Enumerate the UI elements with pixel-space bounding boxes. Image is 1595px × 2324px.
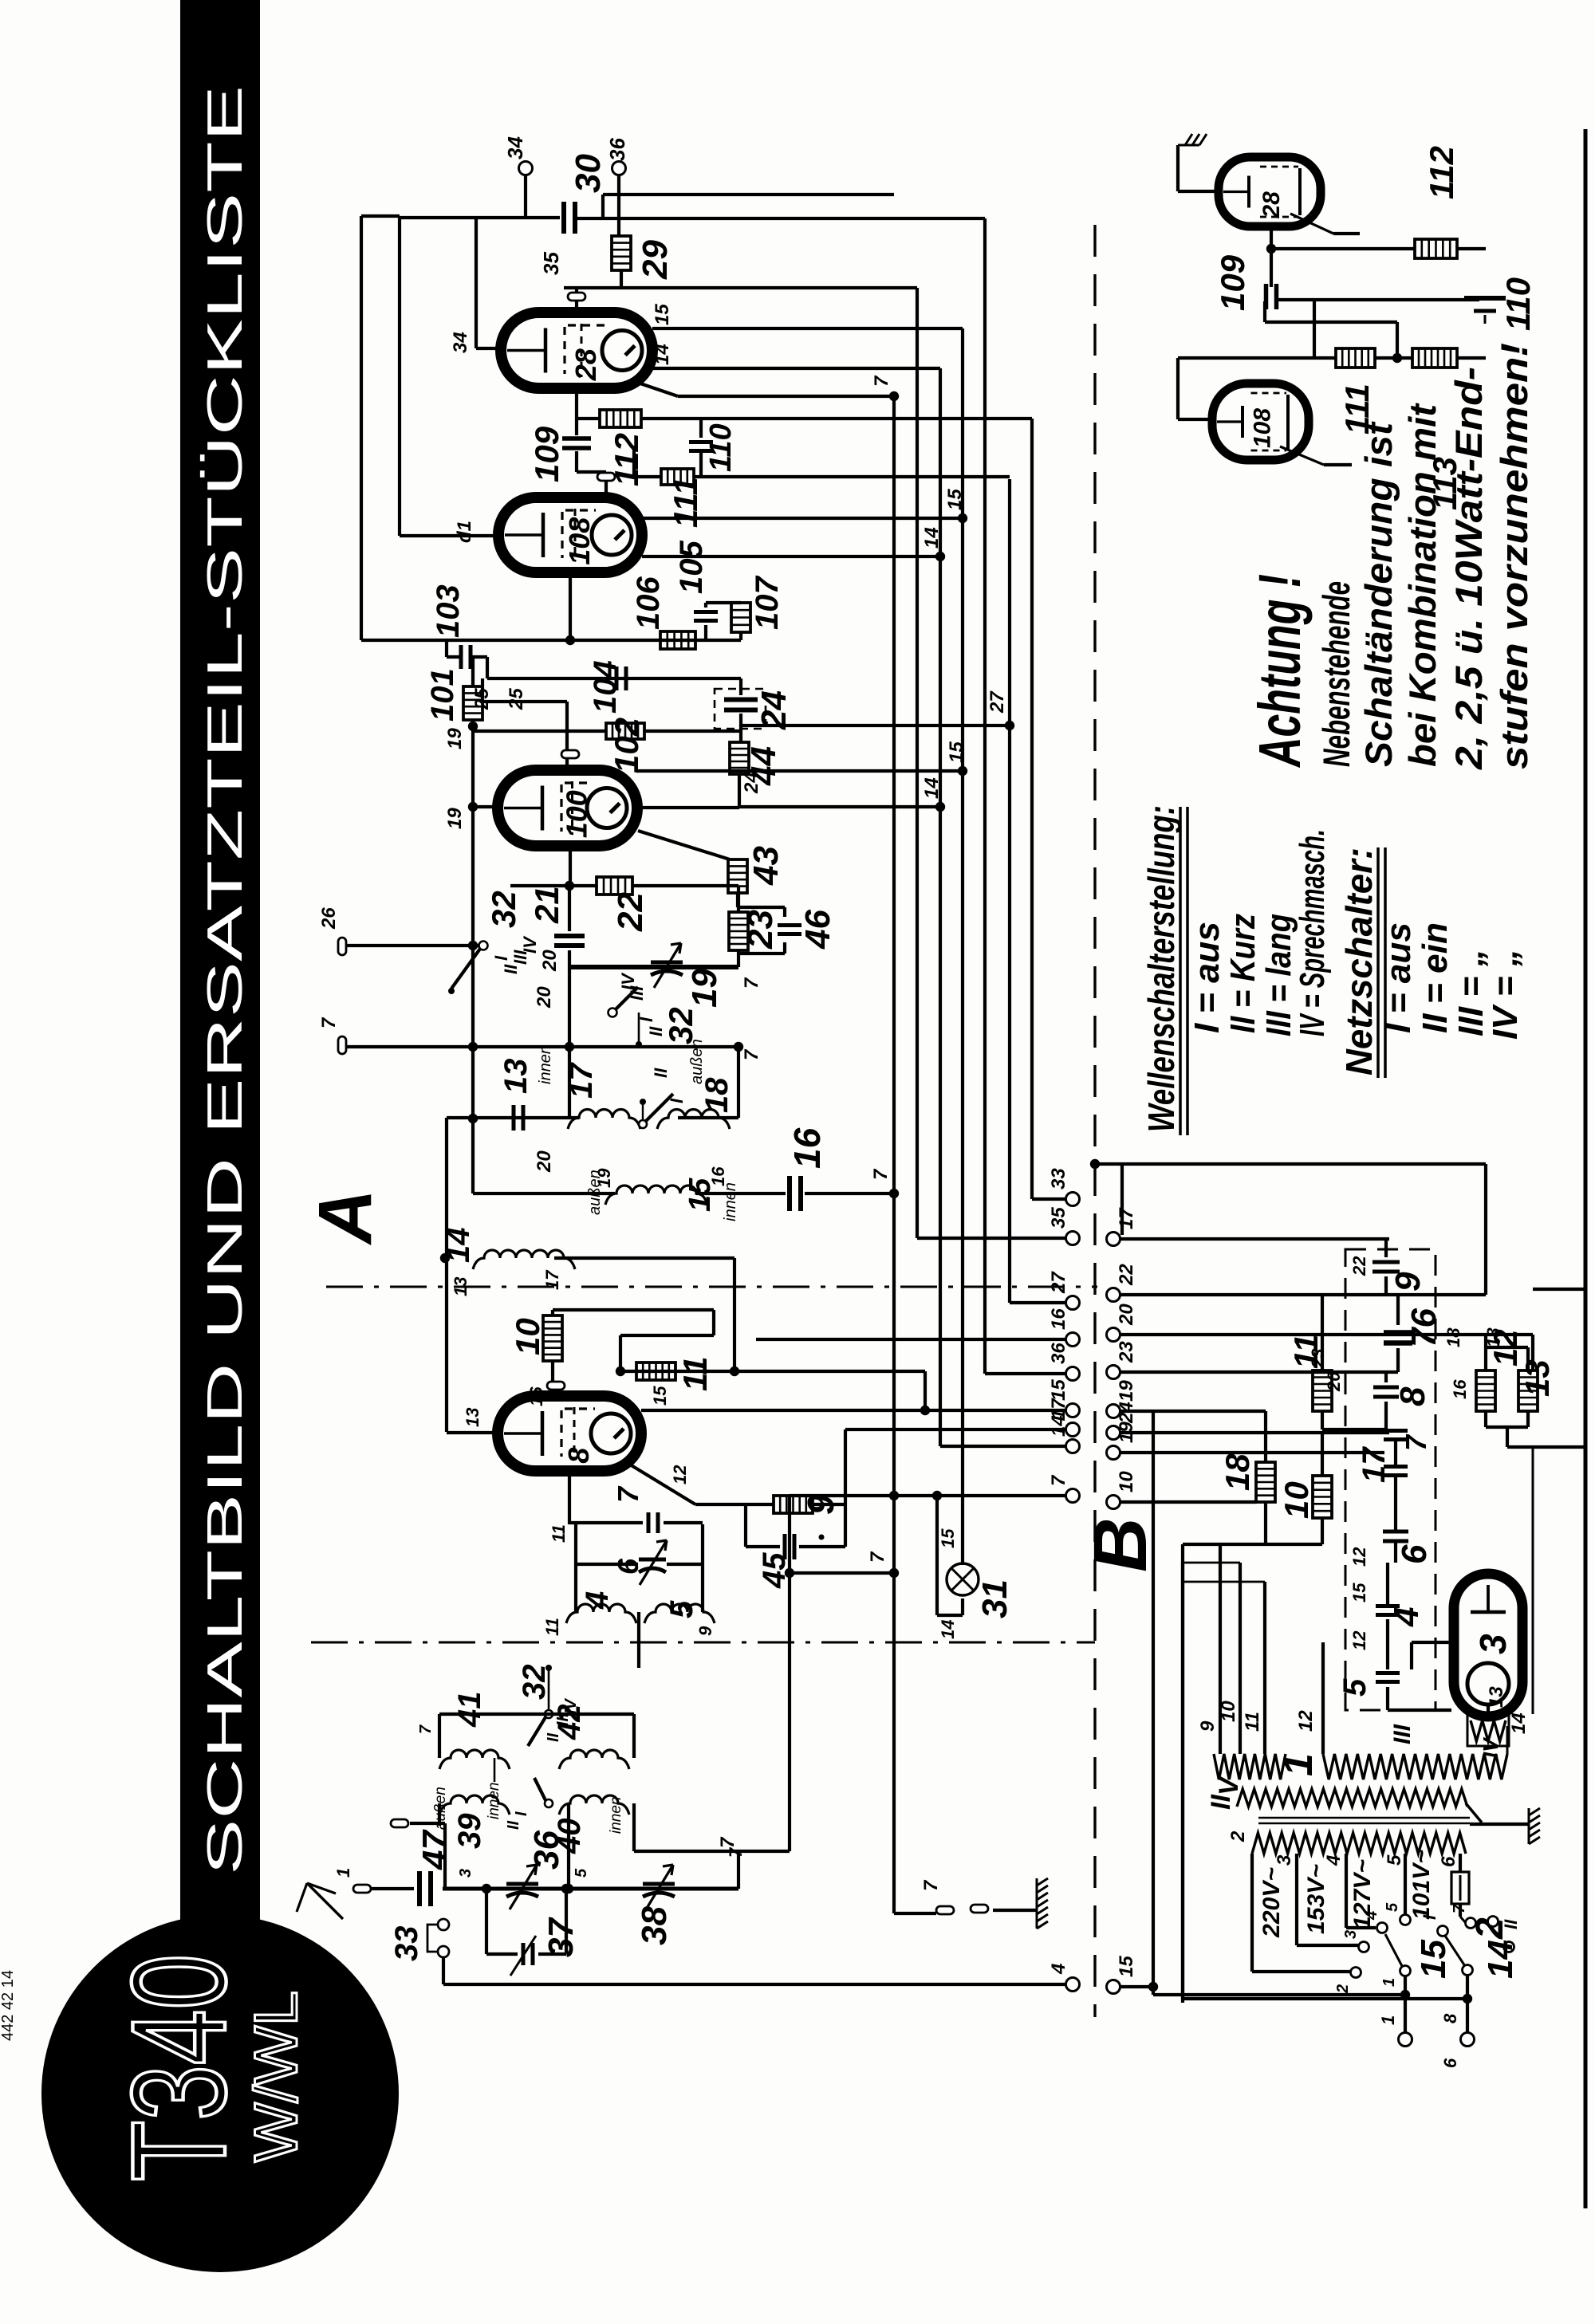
svg-text:109: 109 [528,426,565,482]
wire cap24 bottom [739,714,742,742]
svg-text:7: 7 [726,1846,746,1858]
svg-text:20: 20 [534,986,555,1009]
junction res22 node [565,881,574,891]
terminal B 19 [1107,1446,1120,1460]
wire coil42 right riser [632,1714,636,1758]
wire cap21 to thick node20 line [568,950,571,967]
svg-text:39: 39 [452,1813,487,1849]
junction coil14 left [440,1253,450,1263]
svg-text:W/WL: W/WL [242,1991,310,2162]
wire tube108 lead 14 [642,555,940,558]
trimmer arrow 37 [510,1936,536,1976]
title bar (black banner strip) [180,0,260,1920]
svg-text:17: 17 [1116,1207,1137,1229]
ground chassis phono [1037,1878,1048,1929]
wire node 35 line [564,286,917,289]
wire sub lineA corner [1313,300,1316,358]
svg-text:12: 12 [670,1465,690,1484]
svg-text:23: 23 [1116,1341,1137,1363]
svg-text:26: 26 [318,907,340,930]
terminal A 33 [1066,1193,1080,1206]
svg-text:101V~: 101V~ [1408,1850,1435,1920]
svg-text:7: 7 [867,1551,888,1563]
svg-text:7: 7 [318,1017,340,1028]
junction 14 bus3 [935,552,945,561]
antenna symbol arrow [307,1883,343,1919]
junction 19 b [468,802,478,812]
svg-text:III: III [1389,1724,1416,1744]
svg-text:7: 7 [741,977,762,989]
wire coil40 right down [632,1803,636,1851]
switch 32 lower [639,1120,647,1128]
terminal A 35 [1066,1232,1080,1245]
terminal pin ant 1 [353,1885,371,1893]
junction feeder7 bus1 [889,1491,899,1500]
svg-text:37: 37 [542,1917,581,1957]
svg-text:I: I [513,1811,530,1816]
resistor 18B [1264,1411,1267,1462]
tube 100 hexode mixer [498,770,637,846]
wire coil row left cap13 [447,1116,579,1119]
svg-text:14: 14 [1481,1940,1520,1979]
junction mains [1148,1982,1158,1992]
grid pin tube8 [551,1361,554,1381]
junction sub [1266,244,1276,254]
grid pin tube 108 [597,473,615,481]
resistor 11B [1321,1295,1324,1370]
svg-text:41: 41 [452,1692,487,1728]
svg-text:11: 11 [549,1524,569,1543]
junction feed15 [920,1406,930,1415]
wire tube3 left [1412,1641,1454,1644]
svg-text:32: 32 [517,1665,552,1701]
wire tube3 bottom [1487,1705,1490,1713]
svg-text:13: 13 [1518,1359,1556,1397]
svg-text:14: 14 [1048,1415,1069,1437]
bus line 2 [916,288,919,1238]
svg-text:36: 36 [605,138,629,161]
wire cap105 top [704,603,707,608]
wire L1 anode feed [603,193,894,196]
wire down to node7 row [788,1496,791,1851]
svg-text:innen: innen [537,1045,554,1084]
resistor 13B [1526,1347,1530,1370]
svg-text:I: I [667,1098,687,1103]
terminal B 19 [1107,1405,1120,1418]
svg-text:30: 30 [569,154,608,193]
anode diagonal tube8 [630,1465,695,1504]
feeder terminal 36 [985,1372,1067,1375]
svg-text:I: I [491,955,511,961]
oscillator coil 17 [568,1110,640,1129]
wire cap7 right [664,1521,703,1524]
wire jack to ground [993,1909,1036,1912]
svg-text:8: 8 [562,1448,595,1464]
svg-text:10: 10 [1278,1481,1315,1519]
svg-text:II: II [505,1820,522,1830]
wire pin top [410,1822,445,1825]
wire tube108 lead 15 [642,517,963,520]
wire feed15 riser [924,1371,927,1410]
svg-text:7: 7 [1451,1904,1468,1913]
svg-text:II: II [545,1732,562,1742]
wire coil41/39 junction [494,1758,496,1782]
sub tube 28 [1219,157,1321,226]
wire t22 line [1119,1293,1486,1296]
tube 3 rectifier [1454,1574,1522,1716]
terminal sw15 bottom [1399,2033,1412,2047]
wire sub res112 right [1457,247,1486,250]
junction loop [616,1366,625,1376]
switch 32 middle [608,1009,617,1017]
bandfilter coil 42 [559,1750,629,1769]
svg-text:innen: innen [722,1182,739,1221]
sub capacitor 109 [1266,284,1277,309]
switch 15 contacts [1351,1968,1361,1978]
tube 8 RF pentode [498,1396,641,1471]
wire cap16 to bus1 [805,1192,894,1195]
tube 108 IF/demod [498,497,642,572]
svg-text:4: 4 [1387,1607,1426,1627]
svg-text:6: 6 [1438,1856,1459,1867]
junction 7 line [468,1042,478,1052]
svg-text:III = „: III = „ [1451,949,1491,1036]
divider dash-dot chassis boundary lower [311,1642,1095,1644]
svg-text:IV = „: IV = „ [1486,949,1525,1040]
resistor 101 [471,657,475,686]
svg-text:IV: IV [618,972,638,990]
svg-text:109: 109 [1214,254,1251,311]
wire tube100 left lead 19 [473,805,498,808]
winding V lead lines from B [1183,1562,1240,1564]
junction 26 line [468,941,478,950]
svg-text:32: 32 [662,1007,699,1044]
svg-text:5: 5 [1337,1678,1372,1697]
wire coil row right up [678,1116,738,1119]
terminal B 23 [1107,1366,1120,1379]
wire mains lead 2 [1181,1563,1184,1999]
svg-text:7: 7 [1048,1474,1069,1486]
svg-text:46: 46 [798,910,837,950]
wire tube8 left lead [447,1431,498,1434]
wire node25 line res22 [510,884,597,887]
wire res22 right [632,884,738,887]
bottom rail to terminals [443,1983,1067,1986]
svg-text:10: 10 [1218,1701,1239,1722]
svg-text:Schaltänderung ist: Schaltänderung ist [1357,421,1400,767]
resistor 11A [636,1363,675,1380]
svg-text:20: 20 [1324,1371,1344,1392]
svg-text:10: 10 [1116,1471,1137,1492]
terminal A 36 [1066,1367,1080,1381]
wire fuse bottom switch 14 [1459,1904,1462,1917]
switch 32 wave upper [479,942,488,950]
wire term15 [1119,1985,1153,1988]
wire t17 line [1119,1237,1389,1241]
B top frame [1095,1162,1486,1166]
svg-text:8: 8 [1393,1386,1432,1406]
wire tube8 bottom [568,1471,571,1524]
svg-text:29: 29 [636,240,675,280]
antenna coil 40 [559,1795,629,1815]
trimmer 6A [576,1563,638,1566]
wire res111 to bus6 [694,475,1010,478]
wire res9 right [813,1503,845,1506]
trimmer 19 padder [651,943,683,988]
svg-text:I = aus: I = aus [1187,922,1227,1033]
capacitor 103 [445,640,448,657]
svg-text:B: B [1078,1517,1163,1572]
wire t24 line [1119,1431,1389,1434]
svg-text:I: I [1420,1914,1439,1920]
svg-text:18: 18 [1443,1327,1463,1347]
wire res107 bottom [739,632,742,640]
svg-text:19: 19 [444,728,466,749]
svg-text:stufen vorzunehmen!: stufen vorzunehmen! [1493,343,1535,769]
svg-text:II: II [651,1068,671,1078]
junction cap16 bus1 [889,1189,899,1198]
svg-text:16: 16 [1450,1379,1470,1399]
svg-text:20: 20 [539,950,561,972]
svg-text:24: 24 [1116,1402,1137,1424]
svg-text:3: 3 [457,1869,475,1878]
wire res43 bottom [736,893,739,907]
capacitor 47 [419,1871,431,1906]
svg-text:T340: T340 [104,1954,254,2181]
junction 15 bus4 lower [958,766,967,776]
junction 15 bus4 [958,513,967,523]
primary tap 220V [1250,1854,1254,1972]
wire sub res113 right [1457,356,1486,360]
terminal A 15 [1066,1404,1080,1418]
wire 18B bottom [1264,1502,1267,1544]
resistor 9 [774,1496,813,1513]
wire 12B13B bottom [1484,1411,1487,1427]
capacitor 7B [1384,1431,1408,1440]
svg-text:108: 108 [1250,408,1276,448]
capacitor 6B [1383,1532,1408,1541]
wire pin26 to switch [346,944,482,947]
wire tube108 left lead d1 [400,534,498,537]
sub resistor 111 [1336,348,1375,368]
wire mains leads [1152,1411,1155,1995]
wire cathode 7 line [638,383,678,396]
sub tube28 anode diagonal [1290,214,1333,234]
junction 14 bus3 lower [935,802,945,812]
svg-text:7: 7 [871,375,892,387]
svg-text:14: 14 [938,1620,958,1639]
trimmer 36 [506,1865,538,1909]
anode diagonal tube100 [638,831,730,859]
svg-text:II = Kurz: II = Kurz [1223,914,1262,1033]
svg-text:21: 21 [528,886,565,924]
wire cap9B bottom [1384,1276,1388,1295]
svg-text:34: 34 [503,136,527,159]
terminal 4 left [1066,1978,1080,1992]
svg-text:9: 9 [695,1626,715,1636]
svg-text:108: 108 [563,517,596,565]
svg-text:15: 15 [938,1528,958,1548]
grid pin tube100 [561,750,579,758]
svg-text:31: 31 [975,1579,1014,1618]
svg-text:2, 2,5 ü. 10Watt-End-: 2, 2,5 ü. 10Watt-End- [1447,367,1490,770]
terminal A 14 [1066,1440,1080,1453]
svg-text:7: 7 [870,1168,892,1180]
svg-text:22: 22 [1349,1256,1369,1276]
capacitor 76 [1396,1295,1400,1325]
dial lamp 31 [947,1563,979,1595]
svg-text:9: 9 [1388,1272,1428,1292]
resistor 111 [634,475,661,478]
wire tube8 lead 15 to terminal [641,1409,1067,1412]
svg-text:13: 13 [1486,1686,1507,1708]
hatch continuation mark [1178,134,1207,145]
wire t10 line [1119,1500,1257,1504]
svg-text:4: 4 [580,1591,615,1610]
feeder terminal 33 [1032,1197,1067,1201]
svg-text:19: 19 [685,969,724,1008]
svg-text:35: 35 [1048,1207,1069,1229]
svg-text:1: 1 [1380,1978,1398,1987]
wire coil14 lead right [554,1256,734,1260]
svg-text:20: 20 [534,1150,555,1173]
wire tube28 screen lead 15 [652,327,963,330]
svg-text:15: 15 [652,304,673,325]
Netzschalter underline [1376,847,1380,1078]
svg-text:4: 4 [1363,1911,1380,1921]
resistor 112 coupling [577,417,600,420]
junction 19 a [468,722,478,731]
winding V zigzag [1214,1754,1286,1779]
svg-text:SCHALTBILD UND ERSATZTEIL-STÜC: SCHALTBILD UND ERSATZTEIL-STÜCKLISTE [198,85,253,1875]
bus line 4 [961,328,964,1565]
svg-text:9: 9 [1197,1720,1219,1732]
capacitor 9B [1384,1239,1388,1257]
wire pin1 to cap47 [372,1887,414,1890]
divider dash-dot chassis A boundary upper [326,1286,1097,1288]
wire thick riser [737,1851,740,1889]
svg-text:33: 33 [1048,1168,1069,1190]
resistor 22 [597,877,632,895]
svg-text:6: 6 [612,1558,644,1575]
svg-text:110: 110 [704,423,738,472]
svg-text:12: 12 [1349,1547,1369,1567]
terminal B 22 [1107,1288,1120,1302]
terminal 36 [612,162,626,175]
wire cap7 row [569,1521,643,1524]
wire tube28 bottom to cap109 [575,388,578,435]
coil 4 [566,1604,636,1623]
svg-text:17: 17 [564,1062,599,1099]
wire tube100 bottom [569,846,572,886]
tuned circuit frame right [701,1524,704,1612]
wire sw14 bottom [1466,1976,1469,2034]
svg-text:102: 102 [608,718,645,773]
switch 14 contacts [1438,1926,1448,1937]
svg-text:3: 3 [1274,1854,1295,1866]
wire node7 horizontal [738,1850,790,1853]
feeder terminal 14 [940,1445,1067,1448]
wire branch tube108 left [398,218,401,536]
svg-text:6: 6 [1440,2058,1460,2068]
svg-text:17: 17 [1357,1446,1392,1483]
svg-text:7: 7 [741,1048,762,1060]
bus line 1 [892,396,896,1913]
svg-text:11: 11 [542,1618,562,1636]
svg-text:153V~: 153V~ [1303,1864,1329,1934]
wire t19b line [1119,1451,1384,1454]
svg-text:innen: innen [608,1797,624,1834]
svg-text:38: 38 [635,1906,674,1945]
svg-text:14: 14 [1508,1713,1530,1734]
feeder terminal 16 [756,1338,1067,1341]
svg-text:112: 112 [1423,146,1460,199]
svg-text:I = aus: I = aus [1379,922,1418,1033]
wire tube108 bottom node29 [569,572,572,640]
svg-text:11: 11 [1242,1712,1263,1732]
svg-text:28: 28 [569,348,602,381]
junction 7 on bus1 [889,391,899,401]
junction node7 right [734,1042,743,1052]
capacitor 8B [1384,1372,1388,1382]
svg-text:2: 2 [1227,1830,1249,1842]
svg-text:19: 19 [444,808,466,829]
svg-text:bei Kombination mit: bei Kombination mit [1401,403,1443,767]
capacitor 13 [514,1105,523,1131]
terminal pin 7 left [338,1036,346,1054]
junction coil14 feed [730,1366,739,1376]
terminal 15 left [1107,1980,1120,1994]
junction sub divider [1392,353,1402,363]
svg-text:11: 11 [1287,1334,1325,1369]
svg-text:15: 15 [1349,1583,1369,1602]
svg-text:I: I [636,1017,656,1022]
terminal B 17 [1107,1233,1120,1246]
svg-text:1: 1 [333,1868,353,1878]
capacitor 5B [1386,1619,1389,1669]
svg-text:II: II [1501,1919,1521,1929]
svg-text:3: 3 [1472,1634,1514,1654]
svg-text:5: 5 [664,1600,699,1618]
wire lamp bypass [935,1496,939,1615]
wire AVC vertical [471,720,475,1193]
switch 32 antenna lower [545,1799,553,1807]
wire top row to frame [439,1713,634,1716]
winding III leads [1321,1642,1325,1754]
switch 33 shorting [438,1919,449,1930]
svg-text:Achtung !: Achtung ! [1246,574,1313,768]
wire coil14 feed riser [733,1258,736,1371]
primary tap 127V [1345,1854,1348,1928]
capacitor 46 [738,906,785,909]
svg-text:7: 7 [717,1836,738,1848]
wire res29 bottom [620,270,623,288]
resistor 102 [606,723,644,739]
svg-text:3: 3 [1342,1930,1360,1939]
wire res11B bottom [1321,1411,1324,1429]
sub tube108 anode diagonal [1280,446,1324,465]
svg-text:d1: d1 [454,521,475,543]
svg-text:6: 6 [1395,1544,1434,1564]
svg-text:Netzschalter:: Netzschalter: [1338,847,1380,1075]
resistor 106 [660,631,695,649]
capacitor 30 [564,202,575,234]
terminal pin 26 [338,938,346,955]
capacitor 45 [744,1504,747,1547]
terminal B 20 [1107,1328,1120,1342]
sub resistor 112 [1415,239,1457,258]
winding II zigzag [1237,1789,1467,1807]
